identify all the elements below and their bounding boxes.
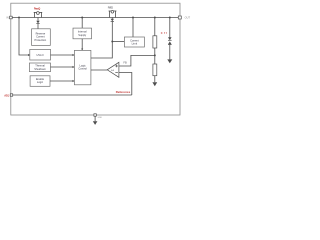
svg-text:IN: IN [6,16,9,20]
wire op-amp plus input to divider tap [119,55,155,66]
wire rail down to zener [169,18,171,38]
node IN tap [18,17,20,19]
wire rail down to Current Limit [132,18,134,38]
wire Thermal to Logic Control [51,66,75,68]
svg-text:Limit: Limit [132,42,138,46]
IC outer border [11,3,180,115]
wire Internal Supply to Logic Control [81,39,83,51]
block Thermal Shutdown [29,63,50,72]
block Current Limit [124,37,144,47]
wire rail down to R1 [154,18,156,36]
pin ADJ (left, red label) [10,94,12,96]
resistor R2 [153,64,157,76]
svg-text:ADJ: ADJ [4,93,10,97]
node rail to divider [154,17,156,19]
wire Logic Control upper output to gate node [91,42,112,59]
svg-text:Pass Q: Pass Q [34,7,40,11]
arrow into Logic Control (Enable) [73,80,75,82]
svg-text:Logic: Logic [37,80,44,84]
node rail to Current Limit [132,17,134,19]
svg-text:Shutdown: Shutdown [34,67,46,71]
transistor Q1 pass PMOS (red label) [34,7,43,29]
zener diode D1 [168,37,172,44]
resistor R1 [153,36,157,48]
wire op-amp minus input to reference line [119,73,132,96]
ground (zener) [167,59,172,63]
node rail to Internal Supply [81,17,83,19]
svg-text:Control: Control [78,67,87,71]
body diode of Q2 [111,19,114,22]
wire IN tap down to UVLO [19,18,30,56]
svg-text:OUT: OUT [185,16,191,20]
wire R1 to R2 [154,48,156,64]
wire Logic Control lower output to op-amp [91,69,107,71]
svg-text:GND: GND [98,117,103,119]
body diode of Q1 [36,21,39,24]
wire R2 down [154,76,156,83]
transistor Q2 PMOS (black label) [108,7,117,42]
svg-text:FB: FB [123,61,127,65]
svg-text:UVLO: UVLO [37,53,44,57]
svg-text:Reference: Reference [116,90,131,94]
wire Enable to Logic Control [50,80,74,82]
node feedback tap [154,54,156,56]
block Enable Logic [30,76,50,87]
node rail to zener [169,17,171,19]
ground (divider) [152,82,157,86]
block UVLO [30,49,51,60]
pin IN [10,16,13,19]
svg-text:C​ff: C​ff [161,32,167,35]
block Internal Supply [73,28,92,39]
wire zener down [169,45,171,60]
arrow into Logic Control (UVLO) [73,54,75,56]
wire rail down to Internal Supply [81,18,83,29]
wire main rail IN to OUT [12,17,178,19]
node gate junction [111,41,113,43]
pin OUT [178,16,181,19]
svg-text:PMOS: PMOS [108,7,114,10]
block Reverse Current Protection [32,29,51,46]
arrow into Logic Control (Thermal) [73,66,75,68]
svg-text:Supply: Supply [78,33,87,37]
wire UVLO to Logic Control [51,54,75,56]
wire gate node to Current Limit [112,41,124,43]
ground (below GND pin) [93,116,98,125]
arrow into UVLO [28,54,30,56]
svg-text:Protection: Protection [35,38,47,42]
arrow into Logic Control (top) [81,49,83,51]
pin GND (bottom) [94,114,96,116]
wire reference line from ADJ pin [13,94,132,96]
block Logic Control [74,50,91,84]
op-amp U1 error amplifier [107,62,119,77]
